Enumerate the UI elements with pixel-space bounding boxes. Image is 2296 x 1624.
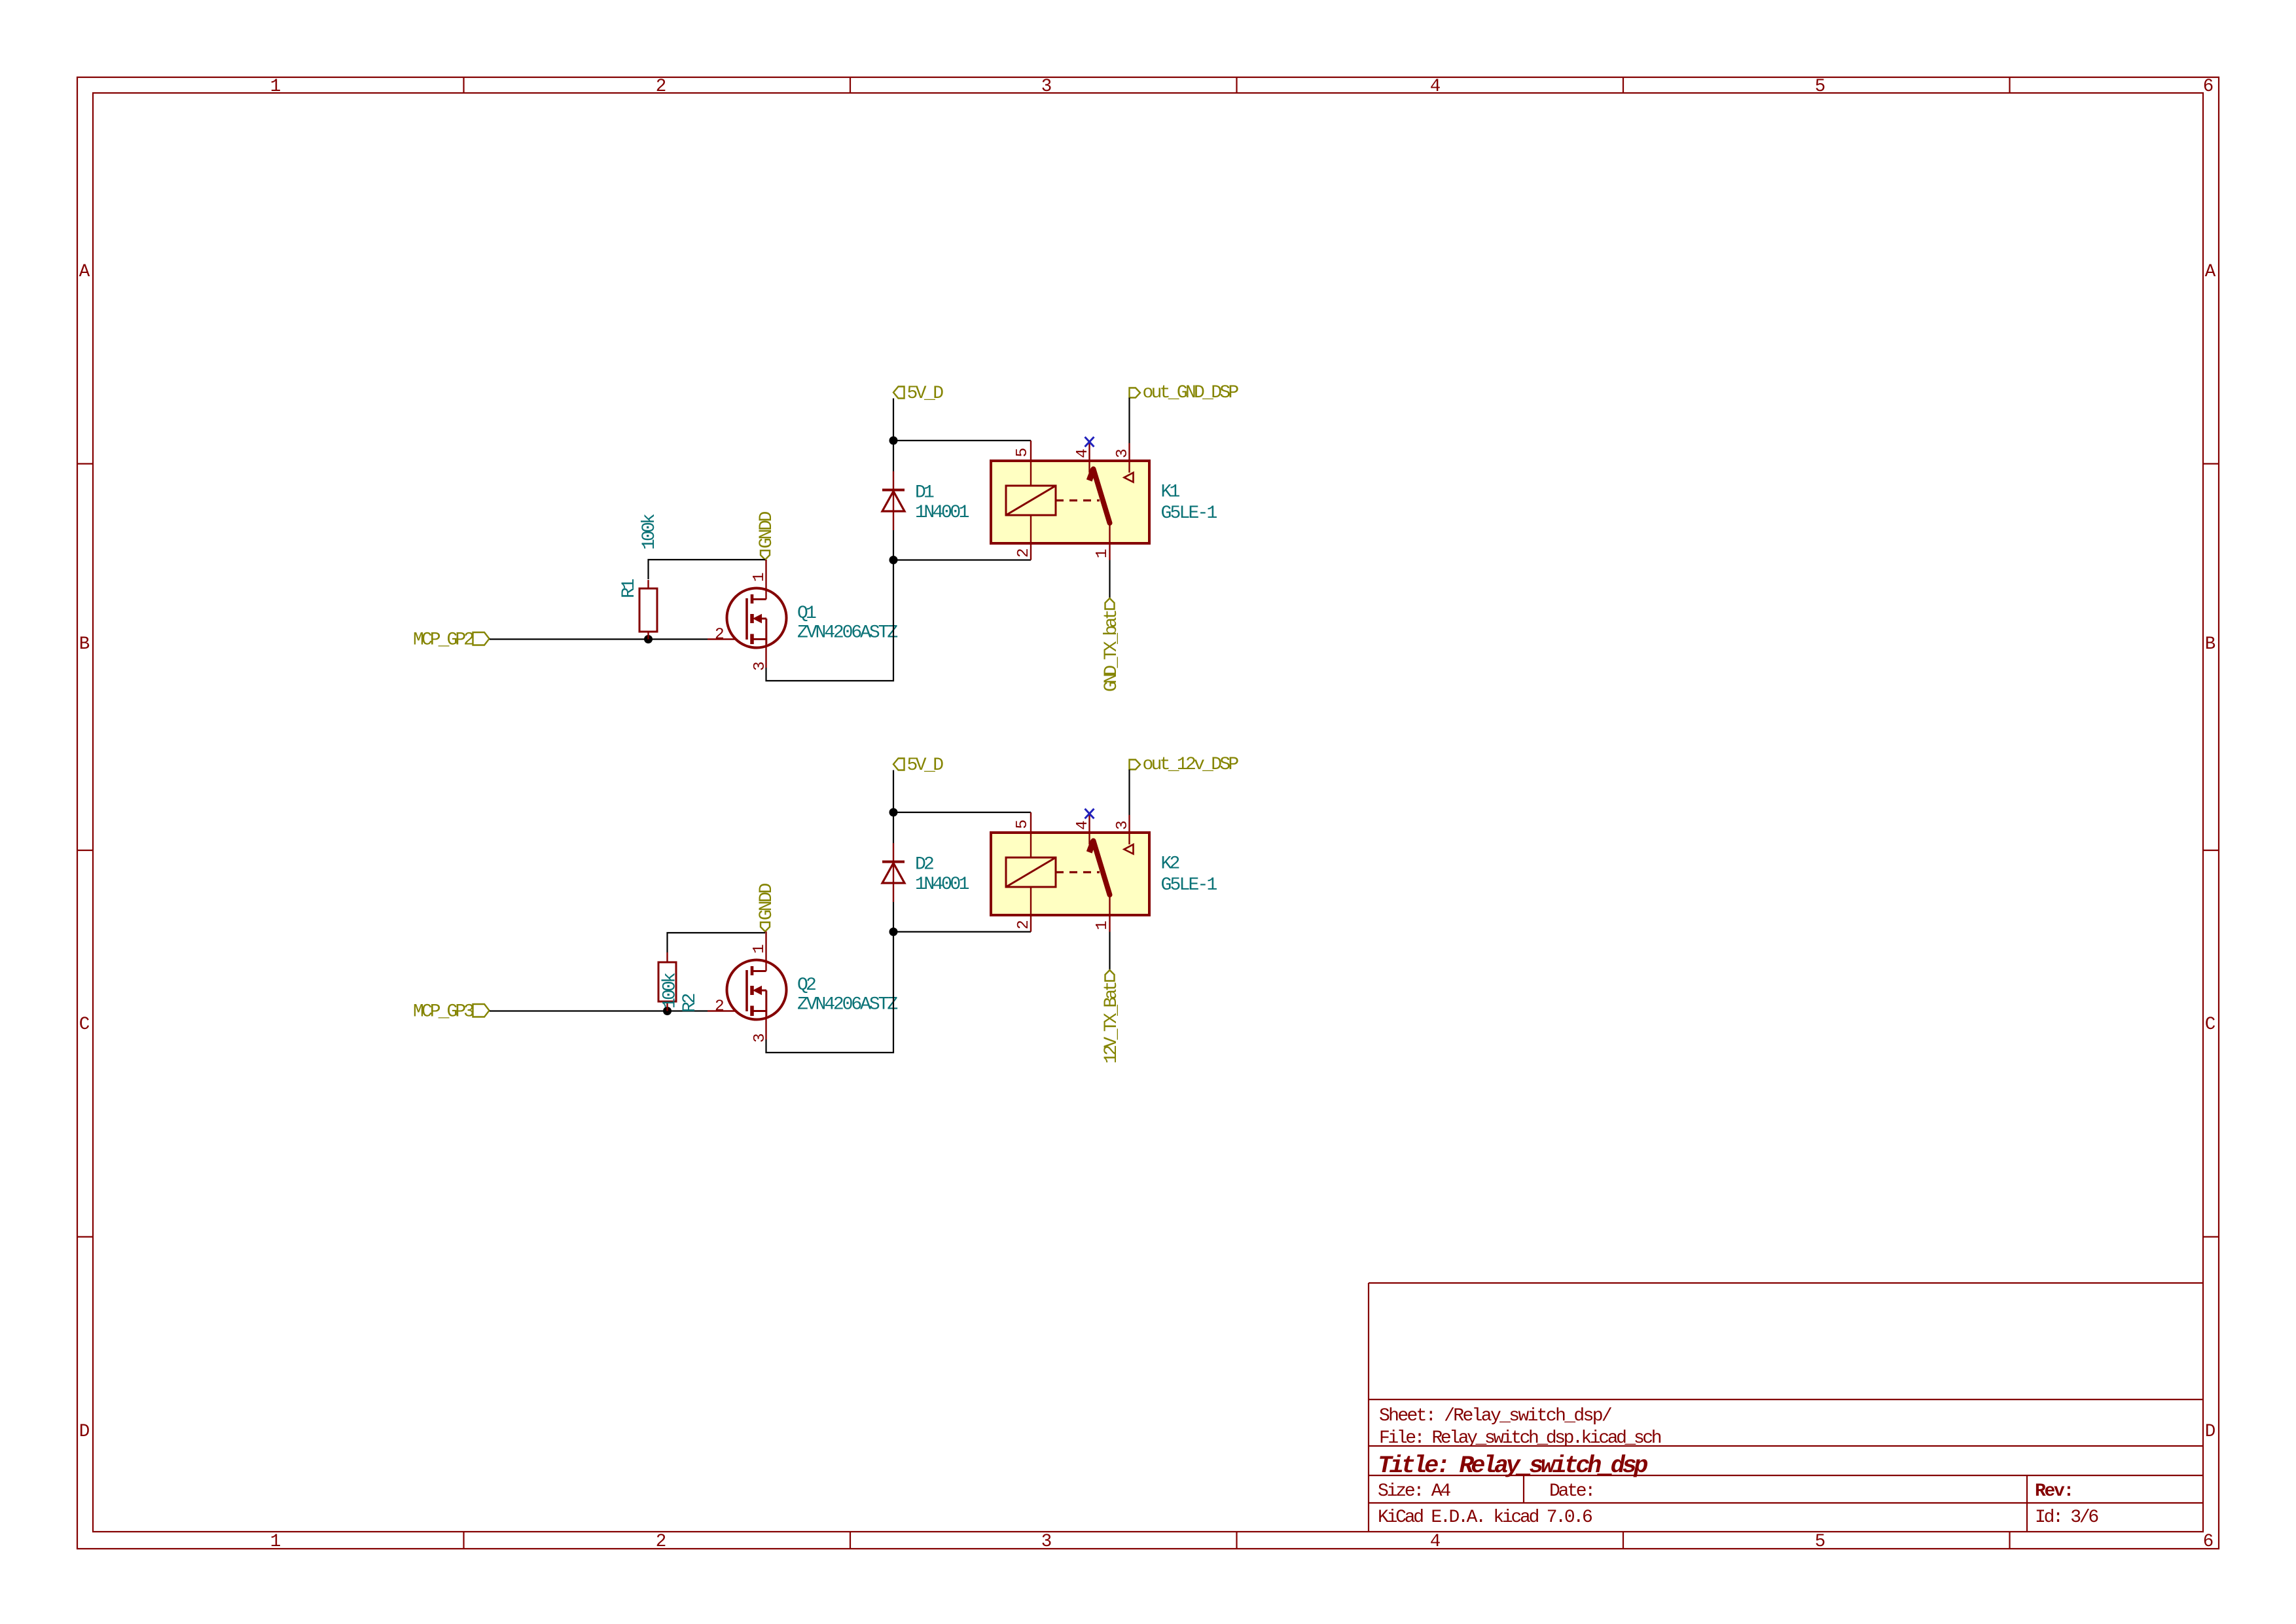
junction at gate node	[663, 1007, 672, 1015]
K2 pin 4 no-connect	[1074, 809, 1094, 845]
wire R1 to GNDD	[649, 560, 766, 579]
svg-text:K1: K1	[1161, 482, 1180, 503]
hierarchical label out_GND_DSP	[1130, 383, 1239, 403]
svg-text:4: 4	[1430, 1532, 1441, 1552]
svg-text:File: Relay_switch_dsp.kicad_s: File: Relay_switch_dsp.kicad_sch	[1379, 1428, 1661, 1449]
svg-text:G5LE-1: G5LE-1	[1161, 875, 1217, 895]
wire out_GND_DSP to K1 pin 3	[1128, 398, 1130, 444]
Q1 reference and value	[797, 604, 897, 643]
svg-text:A: A	[2205, 262, 2216, 282]
K1 pin 1	[1094, 523, 1111, 560]
svg-text:2: 2	[1015, 920, 1033, 929]
wire to relay pin 5	[893, 440, 1031, 441]
K1 pin 2	[1015, 515, 1033, 560]
svg-text:5: 5	[1815, 77, 1826, 97]
svg-text:1: 1	[270, 1532, 281, 1552]
wire MCP_GP2 to Q1 gate	[490, 638, 747, 640]
wire K2 pin 1 to 12V_TX_Bat	[1109, 932, 1110, 971]
power label 5V_D	[893, 755, 943, 776]
svg-text:Q2: Q2	[797, 975, 816, 996]
svg-text:5V_D: 5V_D	[907, 384, 944, 404]
svg-text:out_GND_DSP: out_GND_DSP	[1143, 383, 1239, 403]
power label GNDD	[757, 883, 777, 931]
svg-text:4: 4	[1074, 448, 1092, 458]
svg-text:R1: R1	[619, 579, 639, 598]
svg-text:6: 6	[2203, 77, 2214, 97]
svg-text:2: 2	[1015, 548, 1033, 558]
svg-text:ZVN4206ASTZ: ZVN4206ASTZ	[797, 623, 897, 643]
K2 reference and value	[1161, 854, 1217, 896]
svg-text:2: 2	[715, 626, 725, 644]
K1 pin 4 no-connect	[1074, 437, 1094, 473]
K1 pin 5	[1014, 441, 1031, 486]
svg-text:5: 5	[1815, 1532, 1826, 1552]
svg-text:B: B	[79, 634, 90, 655]
svg-text:1: 1	[270, 77, 281, 97]
svg-text:2: 2	[656, 1532, 667, 1552]
wire to relay pin 5	[893, 812, 1031, 813]
svg-text:5V_D: 5V_D	[907, 755, 944, 776]
Q1 pin 1	[751, 560, 768, 600]
Q1 pin 2	[715, 626, 725, 644]
wire R2 to GNDD	[668, 933, 766, 952]
Q2 pin 1	[751, 931, 768, 971]
svg-text:D1: D1	[915, 483, 934, 503]
D1 reference and value	[915, 483, 969, 524]
svg-text:K2: K2	[1161, 854, 1179, 875]
wire to relay pin 2	[893, 931, 1031, 932]
junction 5V node	[889, 808, 898, 817]
wire MCP_GP3 to Q2 gate	[490, 1010, 747, 1011]
junction at gate node	[644, 635, 653, 643]
K2 pin 5	[1014, 812, 1031, 857]
svg-text:A: A	[79, 262, 90, 282]
power label 5V_D	[893, 384, 943, 404]
svg-text:ZVN4206ASTZ: ZVN4206ASTZ	[797, 995, 897, 1015]
Q1 pin 3	[751, 644, 769, 671]
hierarchical label 12V_TX_Bat	[1102, 970, 1122, 1064]
power label GNDD	[757, 511, 777, 560]
svg-text:3: 3	[1041, 1532, 1052, 1552]
svg-text:D: D	[79, 1422, 90, 1442]
Q2 pin 2	[715, 998, 725, 1016]
wire to relay pin 2	[893, 559, 1031, 560]
resistor R1 100k	[619, 514, 660, 640]
svg-text:B: B	[2205, 634, 2216, 655]
svg-text:GNDD: GNDD	[757, 883, 777, 920]
diode D1 1N4001	[882, 471, 905, 530]
svg-text:Title: Relay_switch_dsp: Title: Relay_switch_dsp	[1378, 1453, 1647, 1480]
svg-text:out_12v_DSP: out_12v_DSP	[1143, 755, 1239, 775]
svg-text:100k: 100k	[639, 514, 660, 550]
title block	[1369, 1283, 2203, 1532]
transistor Q2 ZVN4206ASTZ	[727, 960, 787, 1020]
svg-text:6: 6	[2203, 1532, 2214, 1552]
transistor Q1 ZVN4206ASTZ	[727, 588, 787, 648]
svg-text:Rev:: Rev:	[2035, 1481, 2073, 1502]
relay K2 G5LE-1	[991, 833, 1149, 915]
K1 reference and value	[1161, 482, 1217, 524]
svg-text:4: 4	[1074, 820, 1092, 830]
svg-text:Id: 3/6: Id: 3/6	[2035, 1507, 2098, 1528]
svg-text:1: 1	[1094, 549, 1111, 558]
svg-text:5: 5	[1014, 820, 1031, 829]
svg-text:1: 1	[1094, 920, 1111, 930]
svg-text:MCP_GP3: MCP_GP3	[413, 1002, 474, 1022]
K1 pin 3	[1114, 443, 1134, 482]
svg-text:G5LE-1: G5LE-1	[1161, 503, 1217, 524]
svg-text:12V_TX_Bat: 12V_TX_Bat	[1102, 983, 1122, 1064]
wire out_12v_DSP to K2 pin 3	[1128, 770, 1130, 816]
svg-text:GNDD: GNDD	[757, 511, 777, 549]
svg-text:D2: D2	[915, 855, 933, 875]
svg-text:R2: R2	[680, 994, 700, 1013]
svg-text:D: D	[2205, 1422, 2216, 1442]
hierarchical label MCP_GP2	[413, 630, 490, 651]
svg-text:GND_TX_bat: GND_TX_bat	[1102, 611, 1122, 692]
wire 5V_D down	[893, 770, 894, 932]
resistor R2 100k	[658, 952, 700, 1013]
K2 pin 1	[1094, 895, 1111, 932]
svg-text:3: 3	[1114, 820, 1132, 830]
svg-text:1N4001: 1N4001	[915, 875, 969, 895]
wire Q2 source to relay coil node	[766, 932, 894, 1053]
junction coil bottom node	[889, 928, 898, 936]
relay K1 G5LE-1	[991, 461, 1149, 543]
junction coil bottom node	[889, 556, 898, 564]
Q2 pin 3	[751, 1016, 769, 1043]
svg-text:MCP_GP2: MCP_GP2	[413, 630, 473, 651]
svg-text:3: 3	[1114, 448, 1132, 458]
hierarchical label MCP_GP3	[413, 1002, 490, 1022]
svg-text:Date:: Date:	[1549, 1481, 1594, 1502]
junction 5V node	[889, 437, 898, 445]
svg-text:Size: A4: Size: A4	[1378, 1481, 1450, 1502]
D2 reference and value	[915, 855, 969, 895]
wire K1 pin 1 to GND_TX_bat	[1109, 560, 1110, 599]
svg-text:2: 2	[715, 998, 725, 1016]
svg-text:2: 2	[656, 77, 667, 97]
svg-text:KiCad E.D.A. kicad 7.0.6: KiCad E.D.A. kicad 7.0.6	[1378, 1507, 1592, 1528]
svg-text:Sheet: /Relay_switch_dsp/: Sheet: /Relay_switch_dsp/	[1379, 1406, 1612, 1426]
svg-text:100k: 100k	[660, 973, 681, 1009]
svg-text:4: 4	[1430, 77, 1441, 97]
K2 pin 2	[1015, 887, 1033, 932]
Q2 reference and value	[797, 975, 897, 1015]
svg-text:C: C	[79, 1015, 90, 1035]
K2 pin 3	[1114, 815, 1134, 854]
svg-text:1: 1	[751, 944, 768, 954]
wire 5V_D down	[893, 399, 894, 560]
svg-text:1N4001: 1N4001	[915, 503, 969, 523]
svg-text:C: C	[2205, 1015, 2216, 1035]
hierarchical label GND_TX_bat	[1102, 598, 1122, 692]
svg-text:Q1: Q1	[797, 604, 816, 624]
svg-text:3: 3	[1041, 77, 1052, 97]
svg-text:1: 1	[751, 572, 768, 582]
svg-text:5: 5	[1014, 448, 1031, 458]
diode D2 1N4001	[882, 843, 905, 902]
hierarchical label out_12v_DSP	[1130, 755, 1239, 775]
wire Q1 source to relay coil node	[766, 560, 894, 681]
